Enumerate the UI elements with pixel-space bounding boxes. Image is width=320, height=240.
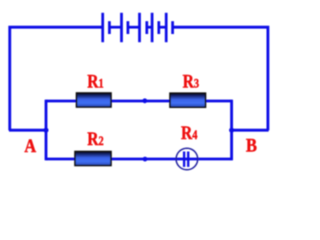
svg-text:B: B [246,135,257,156]
wire top branch right of R3 [205,100,232,103]
node B dot [229,128,234,133]
svg-text:R3: R3 [183,71,200,92]
svg-text:R2: R2 [87,129,104,150]
battery cell 4 long plate [151,13,154,42]
battery cell 2 long plate [120,13,123,42]
svg-text:R1: R1 [87,71,104,92]
node dot top branch [142,98,147,103]
wire inner-right vertical [230,100,233,161]
battery cell 3 short plate [145,21,148,34]
battery cell 5 long plate [165,13,168,42]
lamp R4 plates [184,152,188,167]
wire top branch between R1 and R3 [111,100,171,103]
wire battery link 3 [147,26,152,29]
wire left connector to node A [9,129,46,132]
battery cell 2 short plate [127,21,130,34]
resistor R3 [170,93,206,107]
node A dot [44,128,49,133]
svg-text:A: A [24,135,36,156]
node dot bottom branch [143,157,148,162]
resistor R1 [77,93,112,107]
wire bottom branch right of R4 [198,158,232,161]
battery cell 5 short plate [171,21,174,34]
wire bottom branch left of R2 [46,158,76,161]
battery E (5 cells) [103,13,173,42]
wire bottom branch between R2 and R4 [111,158,199,161]
battery cell 4 short plate [157,21,160,34]
resistor R2 [75,152,111,166]
wire inner-left vertical [45,100,48,161]
svg-text:R4: R4 [181,123,198,144]
battery cell 1 short plate [108,21,111,34]
wire top-left segment [10,27,103,130]
battery cell 3 long plate [138,13,141,42]
wire top branch left of R1 [46,100,77,103]
lamp R4 circle [176,148,198,170]
wire battery link 1 [109,26,121,29]
wire battery link 4 [159,26,166,29]
battery cell 1 long plate [101,13,104,42]
wire top-right segment [173,27,268,130]
wire battery link 2 [128,26,140,29]
wire right connector to node B [232,129,269,132]
